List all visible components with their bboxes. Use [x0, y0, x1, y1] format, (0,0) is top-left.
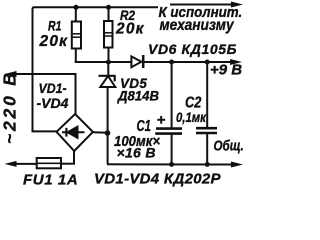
svg-text:VD1-: VD1-: [39, 80, 67, 96]
svg-text:VD1-VD4 КД202Р: VD1-VD4 КД202Р: [94, 171, 222, 188]
svg-text:20к: 20к: [39, 33, 69, 50]
junction node C1/common: [169, 162, 174, 167]
wire fuse to bridge: [61, 163, 75, 165]
svg-text:20к: 20к: [115, 21, 145, 38]
svg-text:0,1мк: 0,1мк: [176, 110, 206, 125]
junction node bridge/VD5: [105, 130, 111, 136]
arrowhead common output: [231, 162, 243, 168]
svg-text:-VD4: -VD4: [37, 95, 69, 111]
diode VD6: [131, 56, 141, 67]
fuse FU1: [37, 158, 61, 168]
wire C1 vertical top: [171, 62, 173, 128]
wire R2 top: [108, 7, 110, 21]
bridge rectifier VD1-VD4 diamond: [57, 114, 93, 151]
wire bridge bottom vertex down: [73, 151, 75, 164]
junction node R2/top rail: [106, 5, 111, 10]
junction node VD5/R2: [106, 60, 111, 65]
svg-text:FU1 1А: FU1 1А: [23, 172, 78, 189]
svg-text:R1: R1: [48, 18, 62, 34]
svg-text:Общ.: Общ.: [214, 137, 244, 154]
svg-text:Д814В: Д814В: [117, 88, 159, 103]
wire C1 vertical bottom: [171, 134, 173, 164]
wire C2 vertical top: [206, 62, 208, 128]
wire common rail: [107, 163, 233, 165]
wire bridge right vertex to junction: [93, 131, 108, 134]
resistor R1: [72, 22, 81, 49]
svg-text:×16 В: ×16 В: [117, 145, 156, 161]
arrowhead AC input lower: [5, 161, 17, 167]
wire C2 vertical bottom: [206, 134, 208, 165]
bridge internal diode: [62, 131, 85, 133]
wire R1 bottom: [75, 49, 77, 64]
svg-text:+9 В: +9 В: [210, 62, 242, 79]
svg-text:механизму: механизму: [160, 16, 235, 34]
capacitor C1: [156, 127, 182, 130]
arrowhead output to mechanism: [231, 2, 243, 8]
wire VD5 vertical: [107, 62, 109, 76]
wire +9V horizontal left segment: [75, 61, 132, 63]
C1 plus sign: [157, 119, 165, 121]
wire bottom-left to bridge left vertex: [32, 130, 57, 132]
junction node C1/+9V: [169, 60, 174, 65]
wire output to mechanism: [170, 4, 234, 6]
arrowhead AC input upper: [5, 71, 17, 77]
junction node R1/top rail: [74, 5, 79, 10]
wire top rail: [33, 7, 159, 131]
wire fuse left / AC input lower: [12, 163, 37, 165]
junction node C2/+9V: [205, 60, 210, 65]
capacitor C2: [196, 127, 217, 130]
resistor R2: [104, 21, 113, 48]
junction node C2/common: [205, 162, 210, 167]
zener diode VD5: [99, 75, 116, 77]
arrowhead +9V output: [230, 59, 242, 65]
wire R2 bottom: [108, 48, 110, 63]
wire box right edge to bridge top: [75, 73, 77, 115]
svg-text:~220 В: ~220 В: [0, 70, 20, 144]
wire R1 top: [75, 7, 77, 21]
wire AC input upper (~220 V): [12, 73, 76, 75]
wire +9V horizontal right segment: [143, 61, 232, 63]
svg-text:VD6 КД105Б: VD6 КД105Б: [148, 41, 237, 57]
